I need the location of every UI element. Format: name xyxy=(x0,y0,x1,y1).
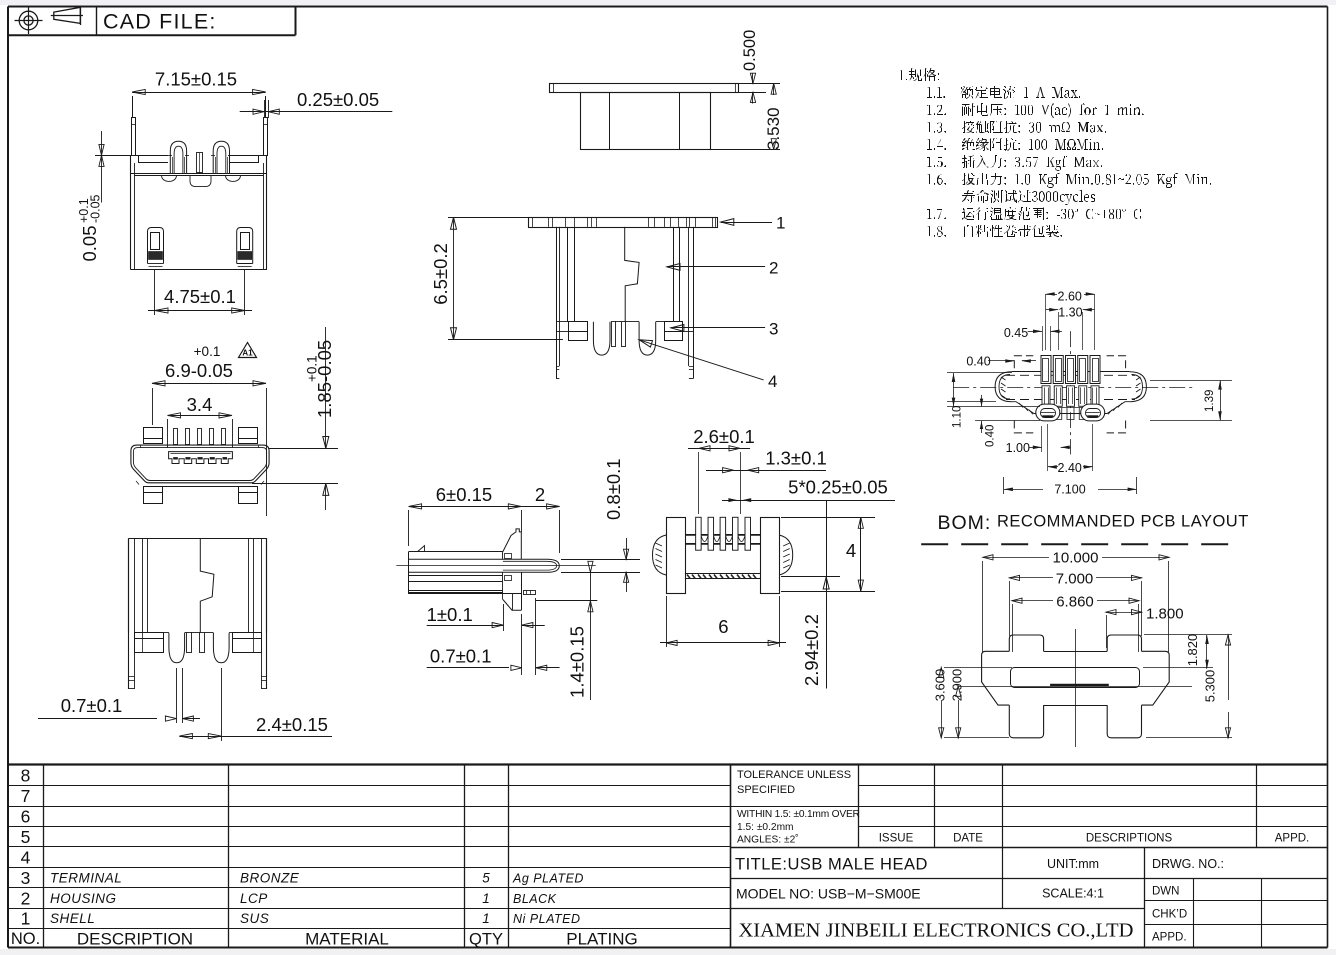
svg-text:3: 3 xyxy=(21,868,31,888)
svg-text:1.3±0.1: 1.3±0.1 xyxy=(765,448,827,469)
svg-text:0.45: 0.45 xyxy=(1004,326,1028,340)
svg-text:Ag PLATED: Ag PLATED xyxy=(512,872,584,886)
svg-text:7.15±0.15: 7.15±0.15 xyxy=(155,69,237,90)
svg-text:0.25±0.05: 0.25±0.05 xyxy=(297,89,379,110)
svg-text:Ni PLATED: Ni PLATED xyxy=(513,912,580,926)
svg-text:HOUSING: HOUSING xyxy=(50,891,117,906)
svg-text:SUS: SUS xyxy=(240,911,269,926)
svg-text:1±0.1: 1±0.1 xyxy=(427,604,473,625)
svg-text:DATE: DATE xyxy=(953,833,983,845)
svg-text:6.9-0.05: 6.9-0.05 xyxy=(165,360,233,381)
svg-text:MATERIAL: MATERIAL xyxy=(305,929,389,948)
svg-text:2.60: 2.60 xyxy=(1058,290,1082,304)
svg-text:ISSUE: ISSUE xyxy=(879,833,914,845)
svg-text:ANGLES: ±2˚: ANGLES: ±2˚ xyxy=(737,834,799,846)
svg-text:5.300: 5.300 xyxy=(1203,670,1218,703)
svg-text:1: 1 xyxy=(482,891,490,906)
svg-text:1.30: 1.30 xyxy=(1058,306,1082,320)
svg-text:MODEL NO: USB−M−SM00E: MODEL NO: USB−M−SM00E xyxy=(736,886,921,902)
svg-text:NO.: NO. xyxy=(11,930,40,948)
svg-text:1: 1 xyxy=(21,908,31,928)
svg-text:7.100: 7.100 xyxy=(1054,482,1085,496)
svg-text:BOM:: BOM: xyxy=(938,512,992,534)
svg-text:2: 2 xyxy=(535,484,545,505)
svg-text:0.7±0.1: 0.7±0.1 xyxy=(61,695,123,716)
svg-text:10.000: 10.000 xyxy=(1053,550,1099,567)
svg-text:DRWG. NO.:: DRWG. NO.: xyxy=(1152,857,1224,871)
svg-text:SPECIFIED: SPECIFIED xyxy=(737,784,795,796)
svg-text:2.94±0.2: 2.94±0.2 xyxy=(801,614,822,686)
svg-text:BLACK: BLACK xyxy=(513,892,557,906)
svg-text:A1: A1 xyxy=(242,349,253,358)
svg-text:DESCRIPTIONS: DESCRIPTIONS xyxy=(1086,833,1173,845)
svg-text:1.10: 1.10 xyxy=(952,406,964,428)
svg-text:7: 7 xyxy=(21,786,31,806)
svg-text:0.40: 0.40 xyxy=(966,355,990,369)
svg-text:XIAMEN JINBEILI ELECTRONICS CO: XIAMEN JINBEILI ELECTRONICS CO.,LTD xyxy=(739,920,1134,942)
svg-text:CAD FILE:: CAD FILE: xyxy=(103,10,217,34)
svg-text:BRONZE: BRONZE xyxy=(240,871,300,886)
svg-text:5: 5 xyxy=(21,827,31,847)
svg-text:6: 6 xyxy=(718,616,728,637)
svg-text:1.39: 1.39 xyxy=(1204,390,1216,412)
svg-text:APPD.: APPD. xyxy=(1152,932,1187,944)
svg-text:4: 4 xyxy=(768,372,777,391)
svg-text:QTY: QTY xyxy=(469,930,503,948)
svg-text:DESCRIPTION: DESCRIPTION xyxy=(77,929,193,948)
svg-text:SHELL: SHELL xyxy=(50,911,95,926)
svg-text:4: 4 xyxy=(846,540,856,561)
svg-text:4.75±0.1: 4.75±0.1 xyxy=(164,286,236,307)
svg-text:1.820: 1.820 xyxy=(1185,634,1200,667)
svg-text:1: 1 xyxy=(776,214,785,233)
svg-text:5: 5 xyxy=(482,871,490,886)
svg-text:7.000: 7.000 xyxy=(1056,571,1094,588)
svg-text:TOLERANCE UNLESS: TOLERANCE UNLESS xyxy=(737,769,851,781)
svg-text:6.5±0.2: 6.5±0.2 xyxy=(430,243,451,305)
svg-text:0.500: 0.500 xyxy=(741,30,759,71)
svg-text:2.6±0.1: 2.6±0.1 xyxy=(693,426,755,447)
svg-text:1.4±0.15: 1.4±0.15 xyxy=(567,626,588,698)
svg-text:DWN: DWN xyxy=(1152,886,1179,898)
svg-text:3.4: 3.4 xyxy=(187,394,213,415)
svg-text:APPD.: APPD. xyxy=(1275,833,1310,845)
svg-text:2: 2 xyxy=(21,888,31,908)
svg-text:TITLE:USB MALE HEAD: TITLE:USB MALE HEAD xyxy=(735,856,928,874)
svg-text:0.05: 0.05 xyxy=(79,225,100,261)
svg-text:UNIT:mm: UNIT:mm xyxy=(1047,857,1099,871)
svg-text:2.40: 2.40 xyxy=(1058,461,1082,475)
svg-text:2.4±0.15: 2.4±0.15 xyxy=(256,714,328,735)
svg-text:TERMINAL: TERMINAL xyxy=(50,871,122,886)
svg-text:SCALE:4:1: SCALE:4:1 xyxy=(1042,887,1104,901)
svg-text:0.40: 0.40 xyxy=(985,425,997,447)
svg-text:0.8±0.1: 0.8±0.1 xyxy=(603,458,624,520)
svg-text:5*0.25±0.05: 5*0.25±0.05 xyxy=(788,477,888,498)
svg-text:-0.05: -0.05 xyxy=(89,194,103,223)
svg-text:WITHIN 1.5: ±0.1mm OVER: WITHIN 1.5: ±0.1mm OVER xyxy=(737,809,860,820)
svg-text:CHK’D: CHK’D xyxy=(1152,909,1187,921)
svg-text:3.530: 3.530 xyxy=(764,107,783,150)
svg-text:1.00: 1.00 xyxy=(1006,441,1030,455)
svg-text:6±0.15: 6±0.15 xyxy=(436,484,492,505)
svg-text:+0.1: +0.1 xyxy=(194,344,221,359)
svg-text:6.860: 6.860 xyxy=(1056,594,1094,611)
svg-text:2: 2 xyxy=(769,259,778,278)
svg-text:6: 6 xyxy=(21,806,31,826)
svg-text:1.800: 1.800 xyxy=(1146,606,1184,623)
svg-text:1.5: ±0.2mm: 1.5: ±0.2mm xyxy=(737,822,794,833)
svg-text:0.7±0.1: 0.7±0.1 xyxy=(430,646,492,667)
svg-text:8: 8 xyxy=(21,765,31,785)
svg-text:1: 1 xyxy=(482,911,490,926)
svg-text:3: 3 xyxy=(769,320,778,339)
svg-text:LCP: LCP xyxy=(240,891,268,906)
svg-text:1.85-0.05: 1.85-0.05 xyxy=(314,340,335,418)
svg-text:PLATING: PLATING xyxy=(566,929,637,948)
svg-text:RECOMMANDED PCB LAYOUT: RECOMMANDED PCB LAYOUT xyxy=(997,513,1249,531)
svg-text:4: 4 xyxy=(21,847,31,867)
